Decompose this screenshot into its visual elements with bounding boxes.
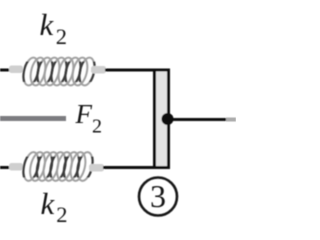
wire output right xyxy=(172,118,226,121)
spring k2 bottom left end cap xyxy=(9,163,23,171)
wire bottom-left lead xyxy=(0,166,11,169)
wire top-left lead xyxy=(0,69,11,72)
spring k2 bottom right end cap xyxy=(89,164,104,172)
circle label 3 xyxy=(139,178,177,216)
wire output gray end xyxy=(226,118,236,122)
label k2 bottom xyxy=(41,186,68,228)
spring k2 top right end cap xyxy=(91,66,106,74)
wire bottom rail to bar xyxy=(103,166,170,169)
wire top rail to bar xyxy=(105,69,170,72)
bar element 3 xyxy=(155,70,169,168)
node junction dot xyxy=(162,113,174,125)
label F2 xyxy=(76,99,103,139)
spring k2 top left end cap xyxy=(9,66,23,74)
spring k2 bottom coils xyxy=(21,150,95,183)
label k2 top xyxy=(40,7,68,50)
force line F2 xyxy=(0,116,66,121)
label 3 in circle xyxy=(144,178,172,215)
spring k2 top coils xyxy=(21,56,97,88)
